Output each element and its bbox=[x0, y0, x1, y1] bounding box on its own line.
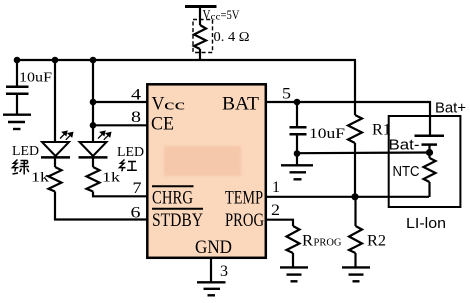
svg-text:R2: R2 bbox=[367, 233, 386, 250]
node pin8 tap bbox=[90, 122, 97, 129]
wire bbox=[54, 157, 56, 167]
svg-text:PROG: PROG bbox=[225, 210, 264, 231]
svg-text:TEMP: TEMP bbox=[225, 188, 263, 209]
wire pin 2 PROG to Rprog bbox=[266, 220, 293, 226]
wire Bat- line bbox=[297, 151, 429, 154]
wire pin 5 BAT to battery bbox=[266, 102, 430, 135]
ground (R2) bbox=[342, 267, 370, 281]
LED D2 red emission arrows bbox=[98, 131, 111, 140]
node BAT/C2 bbox=[294, 99, 301, 106]
capacitor C1 10uF bbox=[6, 60, 29, 114]
wire LED green branch bbox=[54, 60, 56, 142]
node pin4 tap bbox=[90, 99, 97, 106]
svg-text:Bat+: Bat+ bbox=[435, 101, 466, 117]
battery cell plates bbox=[415, 136, 445, 153]
wire bbox=[92, 157, 94, 167]
LED D1 green triangle bbox=[42, 142, 69, 156]
wire bbox=[199, 49, 201, 61]
node rail/C1 bbox=[14, 57, 21, 64]
svg-text:7: 7 bbox=[133, 180, 142, 197]
svg-text:10uF: 10uF bbox=[309, 126, 345, 142]
svg-text:3: 3 bbox=[220, 263, 228, 280]
svg-text:CE: CE bbox=[151, 114, 174, 135]
ground (C2) bbox=[281, 165, 313, 179]
label Vcc=5V bbox=[203, 7, 240, 23]
wire R2 to ground bbox=[354, 253, 356, 267]
svg-text:STDBY: STDBY bbox=[152, 210, 203, 231]
svg-text:1k: 1k bbox=[31, 170, 49, 185]
svg-text:BAT: BAT bbox=[222, 94, 259, 115]
IC inner shaded rect bbox=[164, 146, 241, 176]
wire to pin 6 bbox=[55, 192, 147, 220]
svg-text:LED: LED bbox=[12, 143, 39, 158]
svg-text:V: V bbox=[152, 94, 165, 115]
hanzi green bbox=[13, 160, 30, 175]
wire top rail bbox=[16, 59, 356, 61]
node TEMP/R2 bbox=[351, 193, 358, 200]
svg-text:0. 4 Ω: 0. 4 Ω bbox=[214, 30, 250, 45]
terminal bar Vcc input bbox=[185, 5, 217, 8]
ground (C1) bbox=[3, 115, 31, 129]
svg-text:1: 1 bbox=[272, 179, 280, 196]
wire Rprog to ground bbox=[292, 253, 294, 267]
hanzi red bbox=[120, 160, 137, 172]
svg-text:V: V bbox=[203, 8, 211, 23]
LED D1 cathode bar bbox=[41, 156, 70, 159]
resistor R green 1k bbox=[49, 167, 62, 192]
wire R2 lead bbox=[354, 197, 356, 226]
svg-text:Bat-: Bat- bbox=[389, 138, 420, 154]
IC U1 body bbox=[147, 84, 265, 257]
ground (pin 3) bbox=[197, 282, 226, 295]
battery box LI-Ion bbox=[389, 116, 461, 207]
wire pin 4 bbox=[93, 101, 147, 103]
thermistor NTC bbox=[424, 158, 436, 182]
wire NTC to TEMP line bbox=[428, 182, 430, 197]
resistor 0.4ohm zigzag bbox=[194, 25, 206, 49]
wire bbox=[428, 153, 430, 159]
svg-text:10uF: 10uF bbox=[19, 70, 53, 85]
LED D2 red triangle bbox=[80, 142, 107, 156]
svg-text:5: 5 bbox=[282, 86, 291, 103]
resistor R red 1k bbox=[87, 167, 100, 192]
ground (Rprog) bbox=[280, 267, 308, 281]
wire pin 3 GND bbox=[210, 258, 212, 282]
svg-text:PROG: PROG bbox=[314, 237, 342, 249]
node C2 bottom / Bat- wire bbox=[294, 150, 301, 157]
wire pin 1 TEMP to NTC bbox=[266, 196, 429, 198]
resistor R1 bbox=[348, 115, 362, 143]
svg-text:8: 8 bbox=[131, 109, 141, 126]
pin label STDBY with overline bbox=[152, 208, 203, 210]
node battery minus / NTC bbox=[426, 149, 433, 156]
resistor Rprog bbox=[287, 226, 300, 253]
svg-text:6: 6 bbox=[131, 205, 141, 222]
wire LED red branch bbox=[92, 60, 94, 142]
node rail/LED red branch bbox=[90, 57, 97, 64]
pin label Vcc bbox=[152, 94, 186, 115]
svg-text:LI-lon: LI-lon bbox=[406, 215, 446, 232]
svg-text:GND: GND bbox=[195, 237, 232, 258]
node rail/LED green branch bbox=[52, 57, 59, 64]
svg-text:R: R bbox=[302, 233, 313, 250]
wire to pin 7 bbox=[93, 192, 147, 197]
svg-text:cc: cc bbox=[164, 98, 186, 114]
resistor 0.4ohm dashed box bbox=[193, 20, 213, 53]
wire R1 to TEMP line bbox=[354, 143, 356, 197]
wire C2 to ground bbox=[296, 154, 298, 166]
wire rail to R1 bbox=[354, 60, 356, 115]
label Rprog bbox=[302, 233, 342, 250]
svg-text:2: 2 bbox=[271, 202, 280, 219]
svg-text:4: 4 bbox=[131, 87, 141, 104]
LED D1 green emission arrows bbox=[60, 131, 73, 140]
capacitor C2 10uF bbox=[290, 102, 307, 154]
svg-text:LED: LED bbox=[117, 144, 144, 159]
svg-text:1k: 1k bbox=[102, 170, 120, 185]
svg-text:=5V: =5V bbox=[221, 7, 240, 22]
svg-text:CHRG: CHRG bbox=[152, 188, 193, 209]
LED D2 cathode bar bbox=[79, 156, 108, 159]
wire bbox=[199, 7, 201, 26]
wire pin 8 bbox=[93, 124, 147, 126]
svg-text:NTC: NTC bbox=[393, 163, 420, 180]
resistor R2 bbox=[349, 226, 362, 253]
pin label CHRG with overline bbox=[152, 185, 194, 187]
